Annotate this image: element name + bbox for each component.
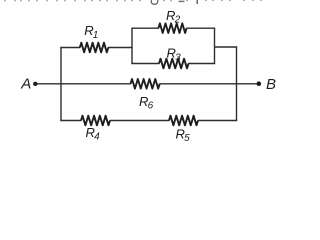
wire: box top left segment (131, 27, 159, 29)
svg-text:A: A (20, 76, 31, 93)
cut-off descender tick (197, 0, 198, 4)
wire: top branch left segment (60, 47, 80, 49)
resistor R3 (159, 59, 189, 69)
svg-text:3: 3 (175, 52, 181, 63)
resistor R6 (131, 79, 160, 89)
resistor R2 (158, 23, 186, 33)
svg-text:B: B (266, 76, 276, 93)
wire: box top right segment (186, 27, 215, 29)
svg-text:4: 4 (94, 132, 100, 143)
label R3 (167, 46, 182, 64)
wire: parallel box left edge (131, 28, 133, 63)
wire: left junction vertical (60, 48, 62, 121)
cut-off text line at top (letter bottoms) (4, 0, 262, 1)
svg-text:2: 2 (174, 15, 181, 26)
label R1 (84, 23, 98, 41)
cut-off bold mark (179, 1, 185, 3)
wire: box bottom right segment (188, 63, 215, 65)
label R4 (86, 125, 101, 143)
wire: main horizontal A to B (36, 83, 259, 85)
wire: box exit to right vertical (215, 46, 238, 48)
svg-text:6: 6 (148, 100, 154, 111)
label R5 (176, 126, 191, 144)
svg-text:5: 5 (184, 133, 190, 144)
resistor R5 (169, 116, 198, 126)
svg-text:1: 1 (93, 30, 99, 41)
descender g of cut-off word (151, 0, 158, 4)
wire: bottom branch right segment (198, 120, 238, 122)
label R2 (166, 8, 181, 26)
wire: right junction vertical (236, 47, 238, 121)
resistor R4 (81, 116, 110, 126)
wire: bottom branch left segment (60, 120, 81, 122)
node B terminal dot (257, 81, 262, 86)
wire: bottom branch middle segment (110, 120, 170, 122)
wire: box bottom left segment (131, 63, 159, 65)
label R6 (139, 94, 154, 112)
node A terminal dot (33, 82, 37, 86)
wire: parallel box right edge (214, 28, 216, 63)
resistor R1 (80, 43, 109, 53)
wire: R1 to parallel box (108, 47, 133, 49)
